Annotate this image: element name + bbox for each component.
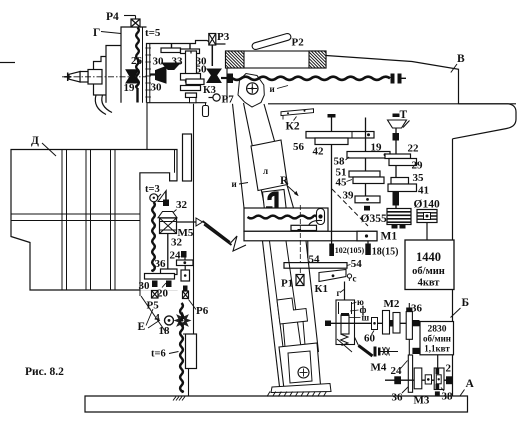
counterweight chain (wavy horizontal) (248, 216, 318, 219)
machine head left housing outline (121, 27, 147, 103)
gear bar 42 (315, 138, 348, 145)
gear bar 39 (355, 196, 380, 203)
svg-text:об/мин: об/мин (412, 266, 445, 277)
motor 2 pinion block (434, 368, 444, 390)
svg-text:33: 33 (172, 56, 184, 68)
sprocket guide arc (308, 220, 322, 227)
hub with dot on shaft IV (372, 318, 378, 330)
svg-text:t=6: t=6 (151, 349, 166, 360)
vertical shaft V bar lower (408, 355, 412, 392)
feedbox lower casing funnel (139, 190, 141, 296)
jig left line below beam (263, 241, 281, 391)
head cover top outline to corner B (326, 56, 459, 104)
spline ticks on gearbox left edge (145, 47, 151, 49)
gear block 30-33 top bars (161, 48, 181, 53)
spindle axis dash line (299, 205, 301, 263)
gear bars 35 41 (391, 178, 409, 185)
svg-text:Е: Е (138, 321, 146, 333)
svg-text:В: В (457, 53, 465, 65)
ground hatch under jig (267, 392, 270, 397)
shaft I of arm (vertical) (331, 118, 333, 241)
svg-text:Ø140: Ø140 (414, 199, 440, 211)
svg-text:20: 20 (157, 288, 169, 300)
svg-text:R: R (280, 175, 289, 187)
svg-text:32: 32 (171, 237, 183, 249)
svg-text:50: 50 (196, 64, 208, 76)
table T-slots (61, 150, 63, 291)
svg-text:Р6: Р6 (196, 305, 209, 317)
svg-text:102(105): 102(105) (335, 246, 365, 255)
belt dashed line (332, 189, 368, 226)
gear bar 36 on shaft (161, 269, 178, 275)
table D outline (11, 150, 177, 291)
svg-text:41: 41 (418, 185, 429, 197)
svg-text:Д: Д (31, 135, 39, 147)
svg-text:26: 26 (131, 55, 143, 67)
svg-text:с: с (353, 274, 357, 284)
svg-text:1440: 1440 (416, 250, 441, 264)
spindle centerline (62, 76, 146, 78)
svg-text:22: 22 (408, 143, 420, 155)
bottom shaft VI (385, 379, 453, 381)
svg-text:45: 45 (336, 177, 348, 189)
gear bar 54 (284, 263, 347, 269)
svg-text:18(15): 18(15) (372, 247, 399, 258)
svg-text:Т: Т (400, 109, 408, 121)
svg-text:39: 39 (343, 190, 355, 202)
switch P5 (152, 291, 159, 299)
vertical shaft V bar upper (406, 312, 412, 340)
gear bar 56-19 (long) (306, 132, 374, 139)
svg-text:38: 38 (442, 391, 454, 403)
M5 vertical shaft (167, 234, 169, 270)
rack bar on column (183, 134, 192, 181)
svg-text:и: и (270, 84, 275, 94)
overload clutch K2 (flat cam) (281, 109, 314, 116)
cylinder under gearbox (K3 actuator) (203, 106, 209, 117)
bevel gear pair 19 on spindle (126, 70, 139, 77)
screw t=3 (wavy) (152, 202, 155, 271)
svg-text:М4: М4 (371, 362, 387, 374)
long gear bar 30 (145, 274, 175, 280)
slide block on t=6 (186, 334, 197, 369)
handwheel star (174, 312, 192, 330)
svg-text:54: 54 (351, 258, 363, 270)
svg-text:Р3: Р3 (217, 31, 230, 43)
svg-text:t=5: t=5 (145, 27, 161, 39)
overrunning clutch M4 (359, 346, 373, 357)
svg-text:30: 30 (153, 56, 165, 68)
svg-text:1,1квт: 1,1квт (424, 344, 450, 354)
jig right line (306, 241, 319, 352)
svg-text:Р7: Р7 (222, 94, 235, 106)
svg-text:М3: М3 (414, 395, 430, 407)
block on P6 shaft (181, 270, 190, 281)
telescopic feed shaft (wavy horizontal) (233, 77, 391, 80)
svg-text:60: 60 (364, 333, 376, 345)
hub with dot right of M3 (425, 375, 431, 384)
horizontal feed shaft IV (326, 322, 406, 324)
svg-text:35: 35 (413, 172, 425, 184)
worm output arrow and lever (177, 221, 197, 223)
shaft III of arm (395, 128, 397, 209)
machine base (85, 396, 468, 412)
svg-text:М1: М1 (381, 231, 398, 243)
svg-text:36: 36 (155, 258, 167, 270)
svg-text:л: л (263, 166, 268, 176)
arm top edge line (268, 103, 516, 105)
svg-text:19: 19 (124, 82, 136, 94)
svg-text:4: 4 (155, 313, 161, 324)
bevel gears right cluster (207, 69, 221, 75)
motor pinion ticks from 2830 (412, 320, 419, 326)
jig inner line 2 (270, 241, 284, 347)
screw t=6 (wavy) (180, 303, 183, 392)
svg-text:2: 2 (446, 363, 452, 375)
clutch M3 gear bar (414, 368, 422, 389)
svg-text:К1: К1 (315, 283, 328, 295)
svg-text:А: А (466, 378, 475, 390)
clutch box M1 on beam (357, 231, 377, 241)
handle curves below chuck (95, 95, 106, 115)
shaft II of arm (365, 118, 367, 197)
feed clutch block (yu-f-sh) (336, 300, 355, 345)
svg-text:и: и (232, 179, 237, 189)
gear hub ticks (152, 281, 158, 288)
rack bar on quill (291, 225, 317, 230)
svg-text:Ø355: Ø355 (361, 213, 387, 225)
bearing tick on housing (266, 206, 273, 208)
pinion shaft and label 54 left (307, 241, 309, 258)
motor 2 spec box (420, 322, 454, 355)
svg-text:4квт: 4квт (418, 278, 441, 289)
svg-text:36: 36 (392, 392, 404, 404)
svg-text:30: 30 (151, 82, 163, 94)
svg-text:56: 56 (293, 141, 305, 153)
lower quill slider (263, 190, 288, 224)
svg-text:М2: М2 (384, 298, 400, 310)
svg-text:Рис. 8.2: Рис. 8.2 (25, 366, 64, 378)
worm wheel M5 (165, 192, 167, 200)
counterweight housing box (244, 208, 328, 231)
svg-text:42: 42 (313, 146, 325, 158)
column line (233, 104, 245, 208)
feedbox right edge (193, 104, 195, 334)
switch P6 (183, 291, 189, 299)
svg-text:об/мин: об/мин (423, 334, 451, 344)
svg-text:Р4: Р4 (106, 11, 119, 23)
switch P1 (296, 275, 304, 286)
vertical shaft V top gear (406, 308, 412, 312)
jig pedestal (271, 384, 331, 393)
svg-text:29: 29 (412, 160, 424, 172)
motor M1 spec box (405, 240, 454, 290)
spindle hook (black) (269, 194, 276, 218)
hubs on shaft VI (394, 376, 401, 384)
gear 18(15) tick (365, 244, 371, 256)
bevel gears left cluster (162, 63, 180, 70)
lead screw t=5 (wavy) (136, 28, 139, 89)
gear 102(105) tick (329, 244, 334, 257)
clutch M2 gears (383, 311, 390, 335)
trip dog pivot (circle-cross) on head (238, 74, 264, 108)
jig foot (279, 343, 321, 389)
link from block to M4 (337, 339, 352, 352)
svg-text:18: 18 (159, 325, 171, 337)
svg-text:Р2: Р2 (292, 37, 305, 49)
feedbox bracket outline (140, 173, 178, 190)
vertical shaft V middle (408, 339, 410, 355)
pulley D140 (417, 210, 437, 223)
slider block l on quill (251, 140, 288, 191)
jig neck lines (283, 324, 285, 348)
svg-text:К2: К2 (286, 121, 300, 133)
pulley D355 (387, 209, 411, 225)
hand lever P2 bar with hatched ends (226, 51, 327, 68)
drill chuck and tool (88, 70, 102, 85)
feedbox white casing fill (140, 173, 194, 291)
quill left edge (244, 103, 266, 208)
speed gearbox casing (147, 41, 226, 103)
pawl with ratchet (t=3 top) (150, 194, 158, 202)
feedbox left edge from head (146, 103, 148, 150)
cam K1 (319, 270, 346, 282)
gear bars middle cluster (181, 74, 201, 81)
traverse beam (244, 231, 377, 241)
svg-text:Г: Г (93, 27, 100, 39)
svg-text:24: 24 (391, 365, 403, 377)
svg-text:32: 32 (176, 199, 188, 211)
pin c (347, 274, 351, 278)
column ledge (right protrusion) (453, 104, 517, 139)
table horizontal divider lines (11, 213, 140, 215)
button P7 (213, 94, 220, 101)
rod from K1 down (348, 278, 350, 281)
gear bar 24 with hub dot (177, 260, 194, 266)
svg-text:ш: ш (362, 313, 370, 323)
gear bars 22 29 (385, 154, 411, 159)
svg-text:30: 30 (139, 280, 151, 292)
P2 handle knob (251, 33, 291, 51)
jig inner line 3 (286, 241, 301, 347)
gear bars 51 45 (349, 171, 380, 177)
svg-text:t=3: t=3 (145, 184, 160, 195)
slide lower guide (188, 369, 190, 397)
svg-text:Б: Б (462, 297, 470, 309)
ground hatch under t=6 (173, 397, 176, 401)
chain sprocket (side view) (317, 209, 325, 225)
jig inner Z-piece (277, 298, 308, 324)
hub on shaft III (393, 133, 400, 141)
svg-text:г: г (337, 288, 341, 298)
hub above pulley (393, 192, 400, 206)
hub under shaft II (364, 206, 370, 211)
gear bar 58 (347, 152, 390, 159)
motor 2 shaft down (437, 355, 439, 368)
central sliding sleeve 33-50 (186, 51, 197, 82)
quill right edge (264, 104, 294, 208)
